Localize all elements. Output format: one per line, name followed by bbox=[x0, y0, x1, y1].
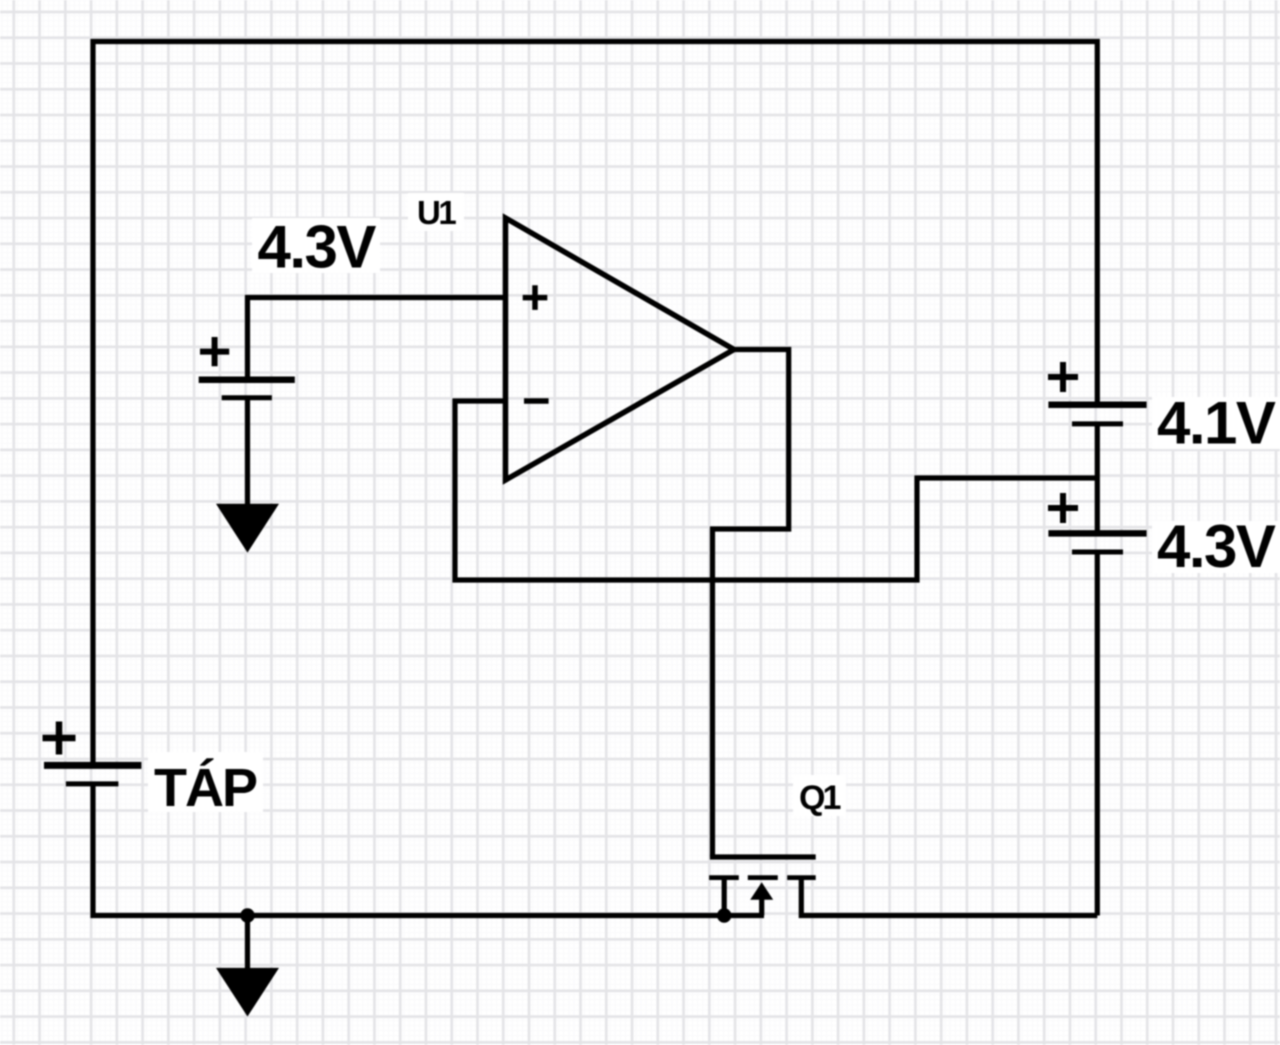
junction node: ground tap on bottom rail bbox=[240, 908, 254, 922]
battery B1 plus sign bbox=[200, 337, 229, 366]
ground GND2 stem bbox=[245, 916, 250, 976]
transistor Q1 channel dash (source side) bbox=[709, 875, 739, 880]
battery B3 long plate (positive) bbox=[1048, 530, 1146, 537]
battery B3 plus sign bbox=[1048, 493, 1078, 523]
label U1 background bbox=[408, 193, 464, 231]
junction node: source on bottom rail bbox=[717, 908, 731, 922]
transistor Q1 body lead stem bbox=[759, 897, 764, 916]
ground GND2 triangle bbox=[216, 968, 279, 1017]
label TAP background bbox=[148, 752, 263, 812]
svg-text:4.3V: 4.3V bbox=[258, 214, 377, 281]
battery TAP long plate (positive) bbox=[44, 762, 141, 769]
battery TAP plus sign bbox=[43, 722, 76, 755]
wire: op-amp - input feedback loop to node between B2 and B3 bbox=[455, 401, 1097, 580]
svg-text:Q1: Q1 bbox=[799, 779, 840, 817]
transistor Q1 body arrow head bbox=[750, 882, 773, 900]
transistor Q1 source lead bbox=[722, 880, 727, 916]
op-amp U1 plus input symbol bbox=[523, 285, 548, 310]
battery B1 long plate (positive) bbox=[199, 376, 295, 383]
battery TAP short plate (negative) bbox=[66, 781, 119, 786]
ground GND1 triangle bbox=[216, 504, 279, 553]
label Q1 background bbox=[793, 775, 846, 816]
battery B2 plus sign bbox=[1048, 362, 1078, 392]
transistor Q1 gate bar bbox=[710, 854, 816, 859]
transistor Q1 channel dash (body) bbox=[748, 875, 778, 880]
svg-text:4.1V: 4.1V bbox=[1157, 390, 1276, 457]
wire: transistor Q1 drain lead to bottom-right corner bbox=[801, 880, 1097, 916]
wire: B3 - plate down to bottom-right corner bbox=[1095, 553, 1100, 916]
wire: between B2 - plate and B3 + plate bbox=[1095, 424, 1100, 532]
wire: op-amp output to MOSFET gate bbox=[713, 350, 789, 858]
battery B3 short plate (negative) bbox=[1072, 550, 1123, 555]
battery B1 short plate (negative) bbox=[222, 395, 272, 400]
op-amp U1 triangle bbox=[506, 218, 735, 480]
battery B2 long plate (positive) bbox=[1048, 401, 1146, 408]
op-amp U1 minus input symbol bbox=[524, 398, 549, 404]
label 4.3V (right) background bbox=[1152, 521, 1280, 573]
label 4.1V background bbox=[1152, 397, 1280, 449]
wire: B1 - plate down to ground GND1 bbox=[245, 398, 250, 508]
wire: TAP - plate down to bottom-left corner, bottom ground rail to MOSFET body bbox=[93, 783, 764, 916]
wire: op-amp + input to reference battery B1 bbox=[248, 298, 506, 381]
battery B2 short plate (negative) bbox=[1072, 421, 1123, 426]
wire: outer loop from TAP + terminal up, across top, down to 4.1V battery + plate bbox=[93, 42, 1097, 767]
label 4.3V (left) background bbox=[252, 218, 380, 273]
transistor Q1 channel dash (drain side) bbox=[787, 875, 816, 880]
svg-text:TÁP: TÁP bbox=[154, 758, 257, 818]
svg-text:4.3V: 4.3V bbox=[1157, 513, 1276, 580]
svg-text:U1: U1 bbox=[417, 194, 456, 231]
